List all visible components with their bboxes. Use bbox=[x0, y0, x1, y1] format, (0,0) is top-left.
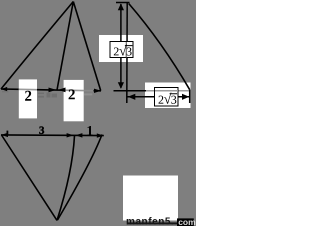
white patch box left under first 2 bbox=[19, 79, 37, 118]
label 2 first bbox=[25, 91, 31, 101]
arrow bottom dim left tip bbox=[128, 94, 136, 100]
faint mark below left arrow bbox=[2, 91, 9, 93]
arrow bottom dim right tip bbox=[182, 94, 189, 100]
white patch box upper 2sqrt3 label bbox=[99, 35, 143, 62]
triangle 3 right side bbox=[58, 135, 103, 221]
triangle 3 cevian bbox=[57, 136, 75, 221]
label 3 bbox=[39, 127, 44, 134]
svg-text:manfen5.: manfen5. bbox=[126, 217, 174, 227]
triangle 2 top cap line bbox=[116, 2, 130, 4]
bordered label box lower 2sqrt3 bbox=[155, 88, 179, 107]
label 2 second bbox=[69, 89, 75, 99]
triangle 2 bottom dimension line bbox=[127, 96, 189, 98]
arrow butterfly right bottom fig bbox=[75, 133, 82, 138]
triangle 2 bottom side bbox=[114, 90, 147, 92]
arrow right tip bottom fig bbox=[97, 133, 104, 137]
leg line crossing upper label box bbox=[125, 42, 127, 58]
arrow butterfly left at cevian bbox=[49, 88, 57, 93]
label 1 bbox=[87, 126, 92, 135]
extension tick at left corner bottom fig bbox=[6, 131, 8, 136]
triangle 2 hypotenuse bbox=[129, 4, 190, 90]
arrow butterfly left bottom fig bbox=[67, 133, 74, 137]
triangle 2 right extension line bbox=[189, 90, 191, 103]
triangle 3 left side bbox=[2, 135, 58, 220]
triangle 1 middle cevian bbox=[57, 2, 73, 91]
arrow down tip bbox=[118, 82, 124, 89]
bordered label box upper 2sqrt3 bbox=[110, 42, 133, 58]
arrow left tip bottom fig bbox=[1, 133, 8, 137]
white patch box lower 2sqrt3 label bbox=[145, 83, 191, 109]
white patch box left under second 2 bbox=[64, 80, 84, 121]
triangle 3 top dimension line bbox=[1, 134, 104, 137]
svg-text:com: com bbox=[178, 217, 196, 226]
triangle 2 vertical leg bbox=[126, 3, 128, 103]
white rectangle bottom right bbox=[123, 176, 178, 221]
arrow up tip bbox=[118, 3, 124, 10]
arrow butterfly right at cevian bbox=[58, 88, 66, 93]
gray line re-draw across lower bordered box bbox=[155, 90, 178, 92]
triangle 1 base dimension line segments bbox=[1, 88, 19, 90]
faint watermark smudge bbox=[38, 93, 57, 98]
label 2sqrt3 lower bbox=[159, 93, 178, 104]
triangle 2 vertical dimension line bbox=[120, 4, 122, 88]
arrow right tip base line bbox=[94, 89, 101, 93]
label 2sqrt3 upper bbox=[114, 44, 133, 55]
triangle 1 right side bbox=[73, 2, 100, 91]
arrow left tip base line bbox=[1, 87, 7, 91]
triangle 1 left side bbox=[1, 2, 73, 90]
